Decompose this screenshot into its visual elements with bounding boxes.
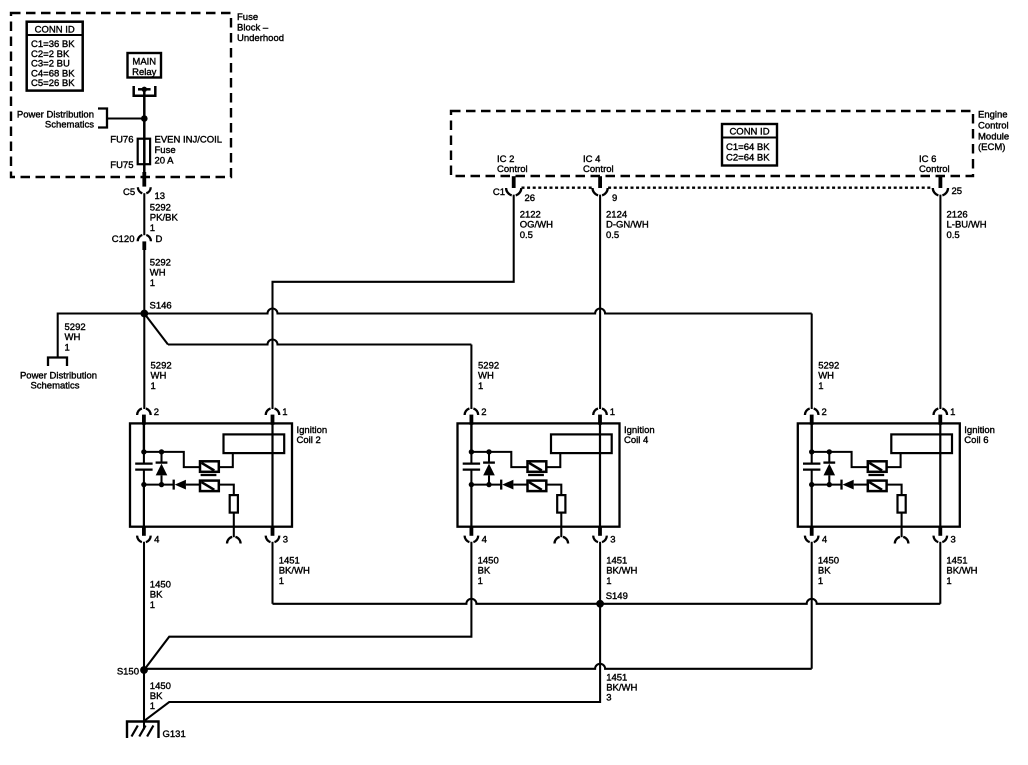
coil 6 internal junction dots bottom row (809, 482, 814, 487)
coil 4 pin 2 connector (465, 409, 479, 415)
wire 1450 BK 1 : coil 4 pin 4 to S150 (144, 542, 471, 670)
svg-text:0.5: 0.5 (947, 230, 960, 241)
wire: S146 right branch to coil 6 pin 2 (hops over coil2 pin1 and coil4 pin1 wires) (144, 309, 811, 314)
MAIN relay box (128, 53, 162, 78)
connector C5 pin 13 (142, 172, 146, 187)
wire 1451 BK/WH 1 : coil 4 pin 3 to S149 (599, 542, 601, 604)
svg-text:1: 1 (946, 576, 951, 587)
svg-text:1: 1 (150, 223, 155, 234)
coil 6 internal: left line to pin 4 (811, 485, 813, 527)
coil 2 internal: left line to pin 4 (143, 485, 145, 527)
svg-text:CONN ID: CONN ID (729, 127, 769, 138)
coil 6 internal: primary winding to module box (887, 453, 901, 467)
coil 6 internal: pin 1 to pin 3 line (939, 423, 941, 526)
coil 6 internal: top branch to primary winding (812, 452, 868, 467)
svg-text:Schematics: Schematics (45, 120, 94, 131)
coil 6 resistor (898, 495, 906, 512)
coil 4 primary winding (528, 461, 547, 472)
coil 6 internal diode (horizontal) (812, 484, 842, 486)
svg-text:Control: Control (497, 164, 528, 175)
coil 4 secondary tower connector (unterminated) (560, 527, 562, 538)
svg-text:EVEN INJ/COIL: EVEN INJ/COIL (155, 135, 223, 146)
wire: coil 6 pin 3 drop (939, 542, 941, 604)
coil 4 internal: primary winding to module box (546, 453, 560, 467)
wire: junction to fuse (143, 119, 146, 141)
svg-text:4: 4 (154, 535, 159, 546)
svg-text:26: 26 (525, 193, 536, 204)
svg-text:S146: S146 (150, 301, 172, 312)
svg-text:C2=64 BK: C2=64 BK (726, 153, 770, 164)
svg-text:1: 1 (818, 576, 823, 587)
svg-text:C5: C5 (123, 187, 135, 198)
svg-text:G131: G131 (163, 729, 186, 740)
junction below relay (141, 115, 148, 122)
svg-text:CONN ID: CONN ID (35, 24, 75, 35)
wire: relay to junction (143, 89, 146, 118)
ignition coil 4 box (458, 423, 620, 526)
coil 4 capacitor (470, 452, 472, 464)
power distribution schematics bracket (top) (98, 109, 107, 128)
coil 6 secondary winding (868, 481, 887, 492)
svg-text:Control: Control (583, 164, 614, 175)
ECM connector C1 dotted face line (522, 186, 593, 188)
coil 2 internal: pin 1 to pin 3 line (271, 423, 273, 526)
coil 2 internal: primary winding to module box (219, 453, 233, 467)
wire: S146 left branch to power distribution (58, 314, 145, 358)
ECM pin 26 connector (C1) (512, 176, 516, 188)
svg-text:2: 2 (154, 407, 159, 418)
svg-text:(ECM): (ECM) (978, 142, 1005, 153)
svg-text:1: 1 (478, 381, 483, 392)
svg-text:FU75: FU75 (110, 160, 133, 171)
splice S146 (140, 310, 148, 318)
coil 2 resistor (230, 495, 238, 512)
wire 2122 OG/WH 0.5 : pin 26 to coil 2 pin 1 (273, 195, 514, 409)
wire 2126 L-BU/WH 0.5 : pin 25 to coil 6 pin 1 (939, 195, 941, 409)
svg-text:1: 1 (950, 407, 955, 418)
svg-text:Underhood: Underhood (237, 33, 284, 44)
connector C120 pin D (138, 235, 151, 241)
coil 4 zener diode (488, 452, 490, 463)
svg-text:1: 1 (150, 701, 155, 712)
coil 6 primary winding (868, 461, 887, 472)
svg-text:3: 3 (606, 693, 611, 704)
wire: 1451 bus to S149 (hops over coil4 pin4 and coil6 pin4 wires) (273, 599, 941, 604)
svg-text:1: 1 (150, 600, 155, 611)
wire 5292 PK/BK 1 (143, 193, 145, 235)
ECM pin 9 connector (598, 176, 602, 188)
coil 6 internal: left feed line (811, 423, 813, 452)
wire 2124 D-GN/WH 0.5 : pin 9 to coil 4 pin 1 (599, 195, 601, 409)
svg-text:Fuse: Fuse (155, 145, 176, 156)
svg-text:Schematics: Schematics (30, 381, 79, 392)
svg-text:Coil 2: Coil 2 (297, 435, 321, 446)
wire 1450 BK 1 : S150 to ground G131 (143, 670, 145, 730)
svg-text:Coil 6: Coil 6 (964, 435, 988, 446)
wire: S146 down to coil 2 pin 2 (143, 314, 145, 410)
coil 2 pin 1 connector (266, 409, 280, 415)
coil 2 internal: top branch to primary winding (144, 452, 200, 467)
svg-text:Fuse: Fuse (237, 12, 258, 23)
wire to power distribution bracket (107, 117, 144, 119)
coil 4 internal diode (horizontal) (471, 484, 501, 486)
coil 2 internal: secondary to resistor (219, 485, 234, 496)
svg-text:Control: Control (978, 121, 1009, 132)
coil 2 pin 3 connector (271, 526, 275, 536)
coil 4 core line (528, 474, 544, 476)
svg-text:S150: S150 (117, 667, 139, 678)
svg-text:D: D (156, 234, 163, 245)
fuse FU76/FU75 EVEN INJ/COIL 20A (138, 139, 150, 165)
relay output contact symbol (134, 86, 156, 96)
coil 4 internal: top branch to primary winding (471, 452, 527, 467)
CONN ID table (fuse block) (27, 22, 83, 91)
svg-text:3: 3 (283, 535, 288, 546)
svg-text:S149: S149 (606, 591, 628, 602)
svg-text:Block –: Block – (237, 23, 269, 34)
CONN ID table (ECM) (722, 124, 777, 166)
svg-text:1: 1 (606, 576, 611, 587)
svg-text:3: 3 (951, 535, 956, 546)
svg-text:C1=64 BK: C1=64 BK (726, 142, 770, 153)
coil 2 secondary winding (200, 481, 219, 492)
svg-text:1: 1 (150, 278, 155, 289)
splice S150 (140, 666, 148, 674)
power distribution schematics bracket (bottom left) (48, 358, 67, 367)
engine control module dashed enclosure (451, 111, 973, 176)
coil 2 internal: left feed line (143, 423, 145, 452)
coil 2 secondary tower connector (unterminated) (233, 527, 235, 538)
svg-text:25: 25 (952, 186, 963, 197)
coil 4 internal: left feed line (470, 423, 472, 452)
coil 6 internal junction dots top row (809, 449, 814, 454)
svg-text:Control: Control (919, 164, 950, 175)
coil 2 module box (224, 434, 285, 453)
coil 4 internal junction dots top row (469, 449, 474, 454)
svg-text:FU76: FU76 (110, 135, 133, 146)
wire 1450 BK 1 : coil 2 pin 4 down to S150 (143, 542, 145, 670)
coil 6 pin 1 connector (934, 409, 948, 415)
ignition coil 2 box (130, 423, 292, 526)
coil 2 internal diode (horizontal) (144, 484, 174, 486)
svg-text:2: 2 (822, 407, 827, 418)
coil 4 pin 1 connector (593, 409, 607, 415)
coil 6 pin 4 connector (810, 526, 814, 536)
coil 4 internal: pin 1 to pin 3 line (599, 423, 601, 526)
coil 2 internal junction dots top row (141, 449, 146, 454)
splice S149 (596, 600, 604, 608)
coil 4 secondary winding (528, 481, 547, 492)
svg-text:20 A: 20 A (155, 156, 175, 167)
coil 6 zener diode (828, 452, 830, 463)
svg-text:C5=26 BK: C5=26 BK (31, 78, 75, 89)
svg-text:3: 3 (610, 535, 615, 546)
ground G131 (127, 722, 159, 739)
coil 6 core line (868, 474, 884, 476)
wire: S146 diagonal branch to coil 4 pin 2 (hop over coil2 pin1 wire) (144, 314, 168, 345)
coil 4 internal: secondary to resistor (546, 485, 561, 496)
svg-text:0.5: 0.5 (606, 230, 619, 241)
coil 4 internal: left line to pin 4 (470, 485, 472, 527)
svg-text:Engine: Engine (978, 110, 1008, 121)
svg-text:Module: Module (978, 132, 1009, 143)
svg-text:1: 1 (610, 407, 615, 418)
svg-text:C120: C120 (112, 234, 135, 245)
svg-text:Coil 4: Coil 4 (624, 435, 648, 446)
coil 6 secondary tower connector (unterminated) (901, 527, 903, 538)
coil 4 resistor (557, 495, 565, 512)
coil 4 pin 3 connector (598, 526, 602, 536)
fuse block underhood dashed enclosure (11, 13, 231, 177)
svg-text:2: 2 (481, 407, 486, 418)
wire 5292 WH 1 (C120 to S146) (143, 248, 145, 314)
ignition coil 6 box (798, 423, 960, 526)
svg-text:1: 1 (282, 407, 287, 418)
svg-text:1: 1 (279, 576, 284, 587)
svg-text:1: 1 (478, 576, 483, 587)
svg-text:4: 4 (482, 535, 487, 546)
ECM pin 25 connector (939, 176, 943, 188)
coil 2 pin 4 connector (142, 526, 146, 536)
wire 1451 BK/WH 1 : coil 2 pin 3 down (271, 542, 273, 604)
coil 2 primary winding (200, 461, 219, 472)
coil 2 capacitor (143, 452, 145, 464)
svg-text:0.5: 0.5 (520, 230, 533, 241)
svg-text:C1: C1 (493, 187, 505, 198)
wire 1450 : coil 6 pin 4 to S150 (hop over S149 ground wire) (811, 542, 813, 669)
coil 2 core line (201, 474, 217, 476)
svg-text:Relay: Relay (132, 67, 157, 78)
svg-text:4: 4 (822, 535, 827, 546)
coil 2 zener diode (160, 452, 162, 463)
coil 2 pin 2 connector (137, 409, 151, 415)
svg-text:1: 1 (151, 381, 156, 392)
coil 6 pin 2 connector (805, 409, 819, 415)
coil 4 pin 4 connector (469, 526, 473, 536)
wire 1451 BK/WH 3 : S149 to ground (144, 604, 600, 721)
coil 4 module box (551, 434, 612, 453)
wire: fuse to connector C5 (143, 164, 146, 173)
svg-text:1: 1 (65, 342, 70, 353)
svg-text:9: 9 (612, 193, 617, 204)
svg-text:13: 13 (155, 191, 166, 202)
coil 6 capacitor (811, 452, 813, 464)
coil 6 module box (891, 434, 952, 453)
svg-text:1: 1 (818, 381, 823, 392)
coil 6 pin 3 connector (938, 526, 942, 536)
coil 4 internal junction dots bottom row (469, 482, 474, 487)
coil 2 internal junction dots bottom row (141, 482, 146, 487)
svg-text:MAIN: MAIN (132, 56, 156, 67)
coil 6 internal: secondary to resistor (887, 485, 902, 496)
